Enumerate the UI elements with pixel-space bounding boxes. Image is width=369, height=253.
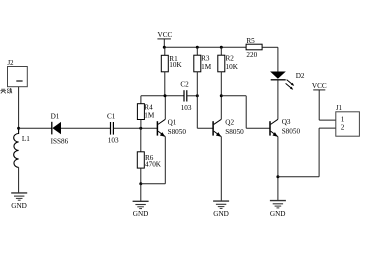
node C2 R3 junction	[196, 94, 199, 97]
svg-text:D1: D1	[51, 112, 60, 120]
svg-text:GND: GND	[270, 210, 286, 218]
svg-text:10K: 10K	[169, 61, 182, 69]
wire antenna node to D1	[19, 127, 52, 129]
power VCC J1	[313, 90, 336, 120]
label 天线 (antenna)	[0, 88, 12, 93]
wire D2 to Q3 collector	[277, 80, 279, 119]
resistor R4	[137, 96, 144, 129]
wire C1 to Q1 base	[114, 127, 158, 129]
svg-text:S8050: S8050	[168, 128, 187, 136]
wire Q2 collector to Q3 base	[221, 96, 270, 129]
wire Q3 emitter to J1 pin2	[278, 128, 336, 177]
svg-text:1M: 1M	[144, 112, 155, 120]
node Q1 emitter junction	[139, 182, 142, 185]
capacitor C1	[111, 122, 114, 135]
transistor Q1	[157, 96, 165, 184]
resistor R3	[194, 47, 201, 72]
node VCC rail R2	[220, 46, 223, 49]
inductor L1	[14, 128, 19, 167]
wire mid rail R4 to C2	[141, 95, 184, 97]
svg-text:R4: R4	[144, 104, 153, 112]
LED D2	[270, 72, 294, 90]
svg-text:D2: D2	[296, 72, 305, 80]
ground GND R6	[133, 201, 149, 208]
svg-text:220: 220	[246, 51, 257, 59]
wire R6 node to ground	[140, 184, 142, 201]
node Q3 emitter junction	[276, 175, 279, 178]
svg-text:R5: R5	[246, 37, 255, 45]
svg-text:Q1: Q1	[168, 118, 177, 126]
wire J2 to antenna node	[18, 87, 20, 129]
node VCC rail R3	[196, 46, 199, 49]
ground GND Q3	[270, 201, 286, 208]
svg-text:GND: GND	[11, 202, 27, 210]
svg-text:1M: 1M	[201, 63, 212, 71]
svg-text:R3: R3	[201, 55, 210, 63]
wire L1 to ground	[18, 167, 20, 192]
connector J2	[8, 67, 28, 87]
svg-text:VCC: VCC	[312, 82, 327, 90]
svg-text:VCC: VCC	[158, 31, 173, 39]
wire emitter rail Q1	[141, 183, 166, 185]
svg-text:R2: R2	[226, 55, 235, 63]
resistor R2	[218, 47, 225, 72]
svg-text:103: 103	[108, 137, 119, 145]
connector J1	[336, 112, 360, 136]
resistor R1	[161, 47, 168, 96]
svg-text:103: 103	[181, 104, 192, 112]
capacitor C2	[184, 90, 187, 101]
wire VCC top rail	[164, 46, 246, 48]
node R1 C2 junction	[164, 94, 167, 97]
svg-text:1: 1	[341, 116, 345, 124]
transistor Q2	[213, 119, 221, 137]
wire R3 to Q2 base	[197, 72, 213, 129]
resistor R6	[137, 128, 144, 184]
wire C2 to R3 column	[187, 95, 197, 97]
svg-text:C1: C1	[107, 112, 116, 120]
node antenna junction	[17, 127, 20, 130]
svg-text:10K: 10K	[226, 63, 239, 71]
svg-text:2: 2	[341, 124, 345, 132]
svg-text:S8050: S8050	[282, 128, 301, 136]
ground GND antenna	[11, 193, 27, 200]
wire Q3 emitter down	[277, 137, 279, 201]
svg-text:GND: GND	[213, 210, 229, 218]
svg-text:S8050: S8050	[225, 128, 244, 136]
wire R5 to D2	[277, 47, 279, 71]
wire Q2 emitter to ground	[220, 137, 222, 201]
ground GND Q2	[213, 201, 229, 208]
transistor Q3	[270, 119, 278, 137]
node R2 line to Q3 base	[220, 94, 223, 97]
resistor R5	[246, 44, 278, 50]
svg-text:Q3: Q3	[282, 118, 291, 126]
svg-text:J1: J1	[336, 105, 342, 112]
svg-text:L1: L1	[22, 135, 30, 143]
wire R2 to Q2 collector	[220, 72, 222, 120]
svg-text:Q2: Q2	[225, 119, 234, 127]
svg-text:ISS86: ISS86	[51, 138, 69, 146]
diode D1	[52, 122, 61, 135]
svg-text:C2: C2	[180, 81, 189, 89]
svg-text:470K: 470K	[145, 161, 162, 169]
node R4/R6 main junction	[139, 127, 142, 130]
node VCC rail R1	[163, 46, 166, 49]
wire D1 to C1	[61, 127, 110, 129]
svg-text:GND: GND	[133, 210, 149, 218]
svg-text:J2: J2	[8, 60, 15, 67]
power VCC	[157, 39, 171, 47]
